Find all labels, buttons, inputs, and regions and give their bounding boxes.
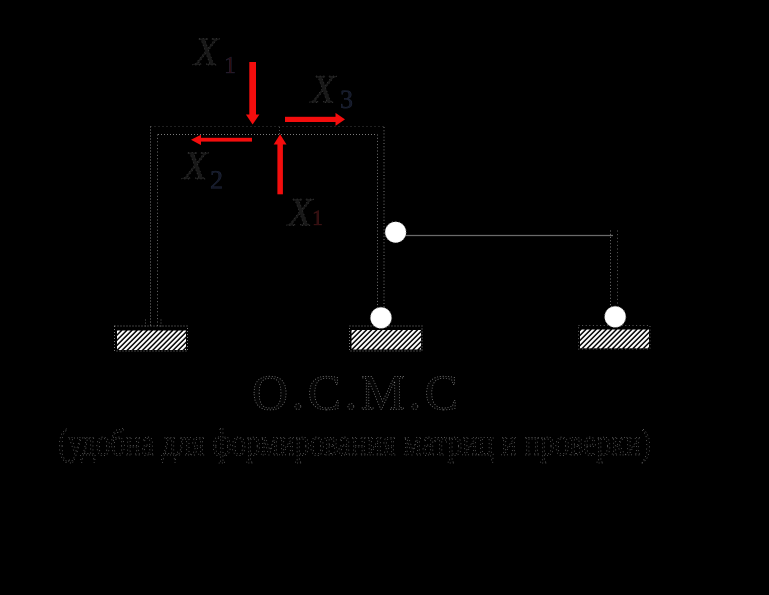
svg-text:О.С.М.С: О.С.М.С <box>252 364 458 420</box>
arrow X1 up (reaction) <box>274 134 287 194</box>
support right: outline <box>579 326 651 350</box>
support right: hatch <box>580 330 649 349</box>
svg-text:X: X <box>192 29 220 74</box>
svg-text:X: X <box>286 190 314 235</box>
hinge circle on middle column (node) <box>385 222 406 243</box>
wire: right column right edge <box>617 231 619 307</box>
arrow X1 down (top load) <box>246 62 260 125</box>
support middle: outline <box>350 326 423 351</box>
svg-text:(удобна для формирования матри: (удобна для формирования матриц и провер… <box>58 422 651 464</box>
support left: outline <box>115 326 188 351</box>
wire: middle column right edge <box>383 127 385 307</box>
support middle: hatch <box>352 330 422 350</box>
wire: middle column left edge <box>377 135 379 308</box>
wire: left column base plate <box>146 319 162 327</box>
wire: beam bottom edge <box>158 134 377 136</box>
svg-text:1: 1 <box>312 205 323 230</box>
wire: link beam between hinges <box>405 235 613 237</box>
wire: left column left edge <box>150 127 152 328</box>
svg-text:X: X <box>309 67 337 112</box>
wire: beam top edge <box>151 126 385 128</box>
arrow X3 right <box>285 113 345 126</box>
svg-text:2: 2 <box>210 166 223 195</box>
svg-text:X: X <box>181 143 209 188</box>
svg-text:3: 3 <box>340 85 353 114</box>
hinge circle at middle support <box>370 307 391 328</box>
wire: left column right edge <box>157 135 159 328</box>
hinge circle at right support <box>605 306 626 327</box>
wire: up-arrow attachment mark <box>279 127 281 134</box>
support left: hatch <box>117 331 186 351</box>
arrow X2 left <box>191 135 252 145</box>
wire: right column left edge <box>610 231 612 307</box>
svg-text:1: 1 <box>224 53 236 79</box>
